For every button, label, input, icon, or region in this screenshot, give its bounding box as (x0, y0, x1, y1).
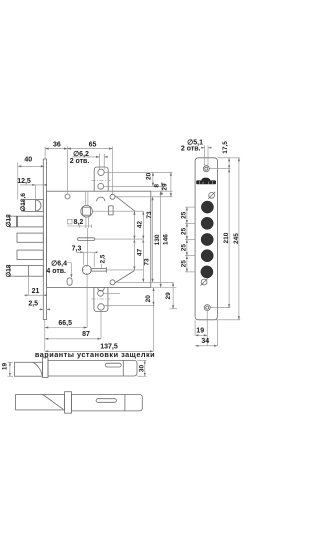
dim 66,5 (44, 320, 46, 351)
hub stem lines (84, 192, 86, 206)
faceplate (43, 159, 46, 320)
svg-text:7,3: 7,3 (72, 246, 82, 253)
plate outline (195, 158, 217, 320)
svg-text:34: 34 (201, 338, 209, 345)
lock case outline (47, 191, 151, 287)
bolt hole 1 (201, 201, 213, 213)
svg-text:29: 29 (162, 183, 169, 191)
dim 19 bottom plate (194, 320, 196, 336)
arc of inner hole at case top (97, 197, 105, 201)
arc of hole at case bottom (98, 288, 105, 291)
dim 87 (100, 310, 102, 339)
hub center extension (92, 210, 143, 212)
tab slotted hole crossing top edge (98, 183, 104, 189)
bottom mounting tab (94, 288, 108, 312)
dim 42 (133, 211, 135, 239)
svg-text:30: 30 (139, 365, 146, 373)
square follower hub (81, 205, 93, 217)
tab centerline (dash-dot) (92, 180, 111, 182)
corner slotted hole bottom-left (67, 278, 72, 286)
stop pin rectangle (109, 206, 114, 215)
corner hole top-left (65, 194, 70, 199)
bolt A (9, 216, 43, 227)
dim 73 bottom (142, 239, 144, 282)
corner hole bottom-right (110, 280, 115, 285)
variant 2 flange (65, 392, 72, 414)
svg-text:25: 25 (181, 227, 188, 235)
svg-text:245: 245 (233, 233, 240, 244)
bolt D (9, 266, 43, 277)
top mounting tab (94, 167, 108, 191)
svg-text:2,5: 2,5 (100, 254, 107, 263)
dim 146 (160, 191, 162, 287)
dim 245 (238, 158, 240, 320)
logo (196, 178, 216, 185)
svg-text:20: 20 (145, 295, 152, 303)
svg-text:4 отв.: 4 отв. (46, 268, 66, 275)
svg-text:∅18: ∅18 (5, 264, 13, 277)
svg-text:2,5: 2,5 (28, 301, 38, 308)
svg-text:∅18: ∅18 (5, 214, 13, 227)
bolt C (17, 250, 43, 259)
svg-text:2 отв.: 2 отв. (70, 158, 90, 165)
svg-text:42: 42 (137, 221, 144, 229)
top screw hole (203, 166, 209, 172)
svg-text:12,5: 12,5 (17, 178, 31, 185)
svg-text:21: 21 (32, 288, 40, 295)
svg-text:17,5: 17,5 (222, 141, 229, 154)
dim 29 bottom (172, 282, 174, 309)
svg-text:25: 25 (181, 211, 188, 219)
variant 2 body (72, 395, 143, 411)
keyhole slot bar (91, 268, 106, 270)
bottom tab hole 2 (98, 290, 104, 296)
svg-text:47: 47 (136, 249, 143, 257)
svg-text:210: 210 (223, 232, 230, 243)
dim 29 top (170, 172, 172, 197)
key slot capsule (horizontal) (78, 238, 95, 241)
variant 1 latch bolt (15, 362, 43, 376)
internal diagonal top (115, 196, 134, 211)
center extension through key slot (95, 238, 144, 240)
dim 40 (18, 165, 45, 167)
svg-text:40: 40 (24, 156, 32, 163)
tab hole 1 (98, 169, 104, 175)
dim 21 (24, 294, 47, 296)
variant 1 flange (43, 358, 49, 378)
latch bolt (24, 200, 44, 212)
dim 34 (216, 320, 218, 346)
corner hole top-right (110, 194, 115, 199)
dim 2,5 faceplate thickness (39, 308, 43, 310)
svg-text:варианты установки защелки: варианты установки защелки (35, 350, 155, 359)
variant 1: dim 19 (8, 361, 14, 363)
svg-text:20: 20 (146, 172, 153, 180)
svg-text:25: 25 (181, 260, 188, 268)
dim 73 top (142, 211, 144, 239)
variant 1 body (48, 360, 137, 376)
svg-text:73: 73 (143, 258, 150, 266)
bolt B (17, 233, 43, 242)
internal diagonal bottom (115, 271, 135, 283)
bolt hole 4 (201, 250, 213, 262)
dim 30 (138, 359, 147, 361)
svg-text:130: 130 (154, 234, 161, 245)
dim 47 (133, 239, 135, 270)
keyhole circle (82, 265, 91, 274)
dim 20 bottom (153, 288, 155, 306)
dim 25 column (185, 206, 195, 208)
svg-text:36: 36 (53, 141, 61, 148)
svg-text:19: 19 (196, 328, 204, 335)
screw with slash bottom (201, 279, 207, 285)
dim 130 (152, 197, 154, 282)
dim 8 (161, 182, 163, 191)
svg-text:87: 87 (82, 331, 90, 338)
label sq 8,2 (67, 219, 72, 224)
svg-text:65: 65 (89, 142, 97, 149)
key channel lines (85, 217, 87, 228)
variant 2 latch bolt (16, 395, 65, 410)
bottom screw hole (204, 305, 210, 311)
svg-text:∅6,2: ∅6,2 (73, 150, 89, 158)
svg-text:19: 19 (1, 363, 8, 371)
dim 20 top (152, 172, 154, 186)
svg-text:∅18,6: ∅18,6 (19, 193, 27, 212)
bottom tab centerline (92, 298, 111, 300)
svg-text:66,5: 66,5 (58, 320, 72, 327)
svg-text:8,2: 8,2 (74, 219, 84, 226)
label d6,2 2 otv with callout (72, 156, 99, 158)
svg-text:8: 8 (154, 184, 161, 188)
ext lines right of plate (217, 157, 240, 159)
bolt hole 5 (201, 266, 213, 278)
bottom tab hole (98, 304, 104, 310)
ext lines (104, 171, 172, 173)
svg-text:29: 29 (165, 292, 172, 300)
svg-text:146: 146 (163, 234, 170, 245)
dim 137,5 (153, 305, 155, 351)
dim 7,3 (76, 251, 94, 253)
svg-text:25: 25 (181, 244, 188, 252)
svg-text:2 отв.: 2 отв. (181, 146, 201, 153)
bolt hole 2 (201, 217, 213, 229)
dim 36/65 top (45, 148, 112, 150)
dim 17,5 and 210 (228, 158, 230, 308)
dim 12,5 (20, 184, 43, 186)
svg-text:∅6,4: ∅6,4 (51, 259, 67, 267)
screw with slash top (209, 193, 215, 199)
svg-text:73: 73 (146, 211, 153, 219)
bolt hole 3 (201, 233, 213, 245)
